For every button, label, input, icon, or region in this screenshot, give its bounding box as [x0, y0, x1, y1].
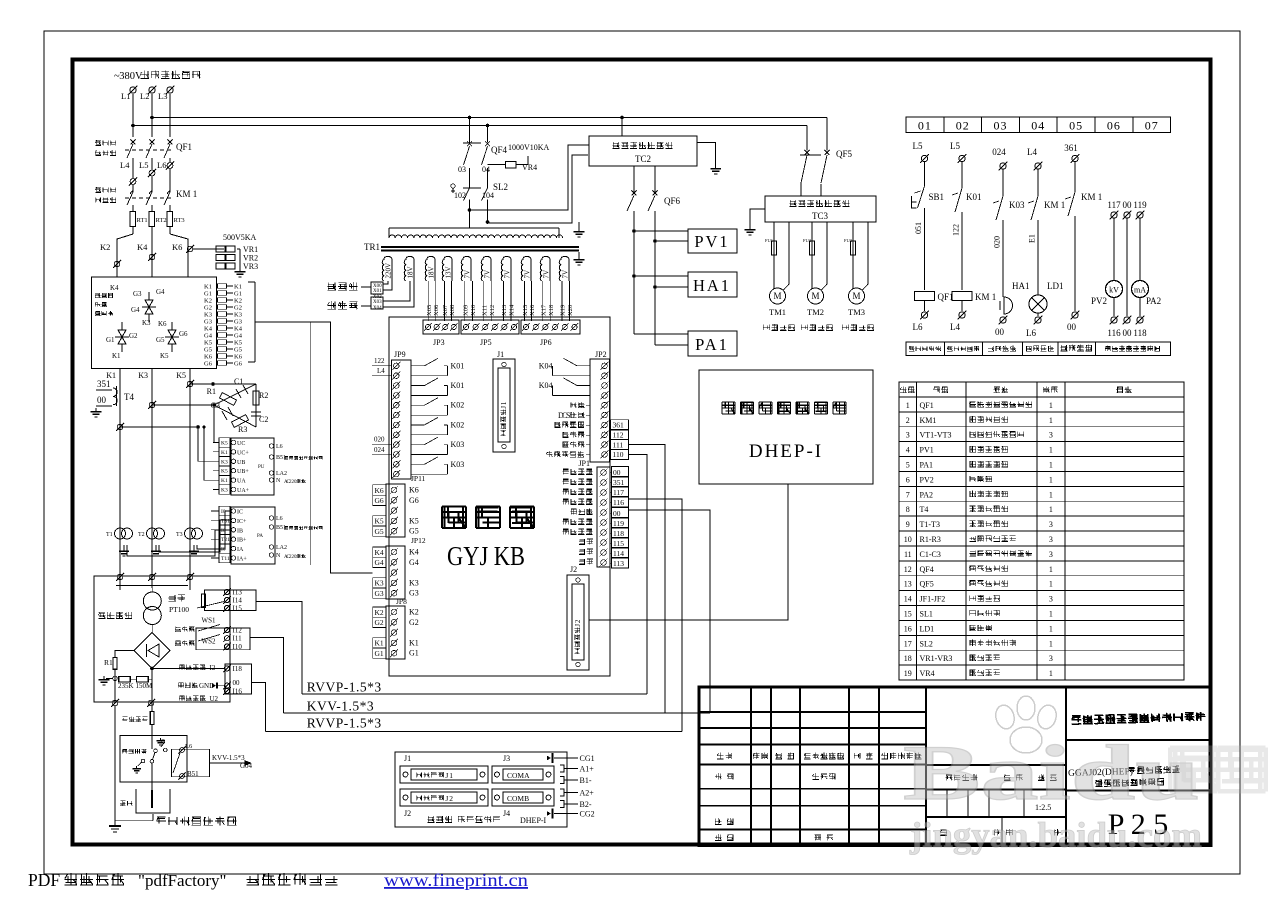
svg-text:KM 1: KM 1	[176, 189, 197, 199]
svg-text:RVVP-1.5*3: RVVP-1.5*3	[307, 680, 382, 695]
svg-text:00: 00	[1123, 328, 1133, 338]
svg-text:L6: L6	[185, 743, 193, 750]
company name	[1066, 739, 1211, 741]
svg-text:PV1: PV1	[694, 232, 729, 251]
svg-text:G1: G1	[234, 291, 242, 298]
lamp LD1	[1029, 295, 1047, 313]
svg-text:UA: UA	[237, 479, 246, 485]
svg-text:00: 00	[1123, 200, 1133, 210]
svg-text:VR1-VR3: VR1-VR3	[920, 654, 953, 663]
svg-text:116: 116	[1107, 328, 1121, 338]
svg-text:FU2: FU2	[803, 238, 811, 243]
svg-text:K5: K5	[176, 371, 186, 380]
svg-text:PV2: PV2	[1091, 296, 1107, 306]
svg-text:17: 17	[904, 639, 912, 648]
svg-text:K02: K02	[451, 401, 465, 410]
svg-text:7V: 7V	[561, 270, 569, 279]
svg-text:102: 102	[454, 191, 466, 200]
svg-text:G2: G2	[204, 305, 212, 312]
svg-text:13: 13	[904, 580, 912, 589]
svg-text:19: 19	[904, 669, 912, 678]
svg-text:111: 111	[613, 440, 624, 449]
svg-text:UA+: UA+	[237, 488, 250, 494]
svg-text:G4: G4	[409, 558, 419, 567]
svg-text:JP3: JP3	[433, 338, 445, 347]
socket COMB	[492, 789, 554, 806]
svg-text:I11: I11	[233, 635, 243, 643]
thyristor VT1	[118, 330, 126, 337]
svg-text:S: S	[566, 411, 570, 420]
svg-text:LA2: LA2	[276, 471, 287, 477]
svg-text:IA: IA	[237, 547, 244, 553]
svg-text:M: M	[773, 291, 781, 301]
label main breaker	[95, 140, 101, 145]
svg-text:LA2: LA2	[276, 545, 287, 551]
svg-text:K01: K01	[451, 381, 465, 390]
svg-text:K5: K5	[234, 340, 242, 347]
svg-text:X06: X06	[433, 304, 440, 316]
svg-text:PA1: PA1	[695, 335, 729, 354]
svg-text:K6: K6	[409, 486, 419, 495]
svg-text:IA+: IA+	[237, 557, 247, 563]
ground main	[103, 676, 105, 680]
svg-text:00: 00	[1067, 322, 1077, 332]
wire riser 111 to KVV line	[629, 445, 666, 714]
svg-text:QF4: QF4	[920, 565, 934, 574]
breaker QF1 3 poles	[131, 140, 136, 145]
svg-text:1: 1	[1049, 565, 1053, 574]
interface board box	[389, 317, 610, 676]
svg-text:G3: G3	[234, 319, 242, 326]
svg-text:PU: PU	[258, 465, 265, 470]
meter box PV1	[634, 230, 688, 232]
svg-text:HA1: HA1	[1012, 281, 1030, 291]
svg-text:DHEP-I: DHEP-I	[520, 816, 547, 825]
svg-text:K4: K4	[110, 284, 119, 292]
svg-text:N: N	[276, 553, 281, 559]
svg-text:18: 18	[904, 654, 912, 663]
svg-text:M: M	[811, 291, 819, 301]
svg-text:TM2: TM2	[807, 307, 824, 317]
wires into transformer	[119, 576, 121, 590]
svg-text:K01: K01	[451, 361, 465, 370]
wire left ends	[256, 601, 302, 694]
svg-text:020: 020	[374, 436, 385, 444]
sheet row	[940, 830, 947, 836]
wire riser 00 to KVV right end	[629, 510, 711, 713]
svg-text:05: 05	[1069, 119, 1083, 133]
svg-text:IC: IC	[237, 510, 243, 516]
svg-text:03: 03	[994, 119, 1008, 133]
svg-text:G04: G04	[240, 762, 253, 770]
svg-text:C1: C1	[234, 377, 243, 386]
svg-text:L6: L6	[1026, 328, 1036, 338]
svg-text:X16: X16	[529, 304, 536, 316]
terminal marks on phase wires	[187, 381, 193, 387]
svg-text:G5: G5	[375, 527, 384, 536]
svg-text:G5: G5	[156, 336, 165, 344]
svg-text:G5: G5	[409, 527, 419, 536]
wire QF6 down to meters	[633, 211, 635, 334]
svg-text:2: 2	[906, 416, 910, 425]
svg-text:1: 1	[1049, 446, 1053, 455]
wire phase verticals to QF1	[132, 94, 134, 137]
svg-text:X12: X12	[489, 305, 496, 316]
svg-text:G4: G4	[156, 288, 165, 296]
svg-text:1: 1	[1049, 639, 1053, 648]
svg-text:K04: K04	[539, 361, 553, 370]
capacitor C3	[228, 407, 233, 416]
svg-text:K03: K03	[451, 460, 465, 469]
contactor KM1 3 poles	[127, 192, 133, 205]
svg-text:K2: K2	[375, 608, 384, 617]
svg-text:115: 115	[613, 539, 624, 548]
svg-text:G3: G3	[375, 589, 384, 598]
svg-text:K2: K2	[100, 242, 110, 252]
svg-text:L5: L5	[913, 141, 923, 151]
svg-text:K6: K6	[172, 242, 182, 252]
svg-text:00: 00	[613, 509, 621, 518]
svg-text:00: 00	[97, 395, 107, 405]
svg-text:T1-T3: T1-T3	[920, 520, 940, 529]
svg-text:VT1-VT3: VT1-VT3	[920, 431, 952, 440]
svg-text:7V: 7V	[503, 270, 511, 279]
svg-text:118: 118	[1133, 328, 1147, 338]
svg-text:B51: B51	[187, 770, 199, 778]
svg-text:1: 1	[1049, 461, 1053, 470]
svg-text:1: 1	[449, 771, 453, 780]
svg-text:14: 14	[904, 595, 912, 604]
svg-text:B1-: B1-	[580, 776, 592, 785]
svg-text:1: 1	[1049, 580, 1053, 589]
svg-text:G1: G1	[375, 649, 384, 658]
svg-text:JP1: JP1	[578, 459, 590, 468]
svg-text:J1: J1	[497, 350, 504, 359]
svg-text:G4: G4	[375, 558, 384, 567]
svg-text:X20: X20	[567, 305, 574, 316]
svg-text:JF1-JF2: JF1-JF2	[920, 595, 946, 604]
svg-text:CG1: CG1	[580, 754, 595, 763]
terminal strip JP6	[521, 320, 580, 334]
svg-text:K1: K1	[409, 638, 419, 647]
svg-text:HA1: HA1	[693, 276, 731, 295]
label main transformer	[98, 612, 105, 618]
svg-text:G6: G6	[375, 496, 384, 505]
svg-text:T4: T4	[124, 392, 134, 402]
svg-text:SL2: SL2	[493, 182, 508, 192]
board2 right terminals	[269, 516, 273, 520]
title block grid left	[750, 687, 752, 846]
svg-text:18V: 18V	[427, 266, 435, 278]
svg-text:7V: 7V	[463, 270, 471, 279]
TR1 primary winding	[389, 227, 559, 229]
svg-text:351: 351	[97, 379, 111, 389]
svg-text:020: 020	[993, 236, 1002, 248]
svg-text:JP2: JP2	[595, 350, 607, 359]
svg-text:K3: K3	[204, 312, 212, 319]
svg-text:K3: K3	[142, 319, 151, 327]
svg-text:T1: T1	[106, 532, 113, 538]
svg-text:13V: 13V	[444, 266, 452, 278]
svg-text:R2: R2	[259, 391, 268, 400]
wire bracket to strips riser	[257, 322, 373, 573]
switch B51 box	[172, 749, 210, 776]
svg-text:X01: X01	[373, 289, 382, 294]
svg-text:3: 3	[1049, 595, 1053, 604]
wire horizontal to RC network	[120, 426, 198, 428]
svg-text:K1: K1	[234, 284, 242, 291]
breaker QF5	[806, 143, 808, 151]
svg-text:K4: K4	[375, 548, 384, 557]
controller connector box	[395, 752, 567, 827]
svg-text:FU1: FU1	[765, 238, 773, 243]
right pin labels CG1..CG2	[551, 753, 553, 763]
transformer symbol circles	[143, 592, 161, 610]
svg-text:X11: X11	[481, 305, 488, 316]
svg-text:L5: L5	[139, 160, 148, 170]
svg-text:X10: X10	[470, 305, 477, 316]
terminal box I18 00 I16	[225, 664, 252, 694]
svg-text:L6: L6	[276, 516, 283, 522]
svg-text:J: J	[445, 794, 448, 803]
wires K lines to board1	[214, 405, 219, 443]
svg-text:I10: I10	[233, 643, 243, 651]
svg-text:K4: K4	[234, 326, 243, 333]
svg-text:L5: L5	[950, 141, 960, 151]
svg-text:KM 1: KM 1	[1081, 192, 1102, 202]
svg-text:JP12: JP12	[411, 536, 426, 545]
svg-text:L6: L6	[913, 322, 923, 332]
svg-text:122: 122	[374, 357, 385, 365]
svg-text:G4: G4	[131, 306, 140, 314]
svg-text:5: 5	[906, 461, 910, 470]
svg-text:TM1: TM1	[769, 307, 786, 317]
svg-text:A1+: A1+	[580, 765, 595, 774]
wire riser 110 to RVVP line1	[629, 454, 648, 694]
svg-text:1000V10KA: 1000V10KA	[508, 143, 550, 152]
svg-text:X13: X13	[501, 305, 508, 316]
svg-text:G4: G4	[204, 333, 213, 340]
svg-text:1: 1	[500, 401, 508, 405]
interface board title	[442, 506, 466, 528]
svg-text:JP6: JP6	[540, 338, 552, 347]
svg-text:18V: 18V	[406, 266, 414, 278]
svg-text:361: 361	[613, 421, 625, 430]
svg-text:PV1: PV1	[920, 446, 934, 455]
svg-text:K3: K3	[138, 371, 148, 380]
svg-text:K1: K1	[204, 284, 212, 291]
resistor R2	[253, 391, 259, 405]
svg-text:G5: G5	[204, 347, 212, 354]
svg-text:1: 1	[1049, 669, 1053, 678]
meter PA2	[1132, 281, 1149, 298]
meter box HA1	[634, 275, 688, 277]
node L3 terminal	[167, 87, 173, 93]
svg-text:C1-C3: C1-C3	[920, 550, 941, 559]
wire bus top y117	[152, 117, 827, 119]
connector JP9 strip	[392, 360, 411, 479]
terminal strip JP3	[423, 320, 459, 334]
border inner thick frame	[73, 60, 1211, 845]
svg-text:L4: L4	[1027, 147, 1037, 157]
svg-text:UB+: UB+	[237, 469, 249, 475]
svg-text:351: 351	[613, 478, 625, 487]
svg-text:L2: L2	[140, 91, 149, 101]
svg-text:G6: G6	[204, 361, 213, 368]
svg-text:TR1: TR1	[364, 242, 380, 252]
svg-text:04: 04	[1031, 119, 1045, 133]
svg-text:RT1: RT1	[137, 217, 148, 224]
svg-text:K6: K6	[234, 354, 243, 361]
svg-text:DHEP-I: DHEP-I	[749, 441, 823, 462]
svg-text:PA2: PA2	[1146, 296, 1161, 306]
title row labels	[717, 753, 724, 759]
svg-text:M: M	[852, 291, 860, 301]
svg-text:7: 7	[906, 490, 910, 499]
svg-text:K5: K5	[221, 441, 228, 447]
svg-text:K5: K5	[204, 340, 212, 347]
svg-text:10: 10	[904, 535, 912, 544]
svg-text:K02: K02	[451, 420, 465, 429]
wire SL2 to TC2 left	[470, 145, 590, 210]
svg-text:X15: X15	[522, 305, 529, 316]
thermal relay RT1 RT2 RT3	[130, 212, 136, 227]
JP2 left text lines	[570, 402, 576, 408]
svg-text:R1: R1	[207, 387, 216, 396]
svg-text:K6: K6	[375, 486, 384, 495]
svg-text:L6: L6	[276, 444, 283, 450]
svg-text:K1: K1	[375, 639, 384, 648]
svg-text:KM 1: KM 1	[975, 292, 996, 302]
control transformer TC3 box	[765, 196, 876, 222]
svg-text:K1: K1	[221, 478, 228, 484]
sampling board PV upper	[231, 438, 274, 495]
svg-text:J1: J1	[404, 754, 411, 763]
svg-text:SL2: SL2	[920, 639, 933, 648]
meter box PA1	[634, 333, 688, 335]
TR1 core lines	[381, 246, 579, 248]
svg-text:RT3: RT3	[174, 217, 185, 224]
caption site equipment diagram	[156, 817, 166, 823]
svg-text:C3: C3	[211, 401, 220, 410]
sampling ground label	[178, 682, 184, 687]
svg-text:L4: L4	[950, 322, 960, 332]
terminals on phase wires	[149, 254, 155, 260]
svg-text:COMB: COMB	[507, 794, 529, 803]
svg-text:3: 3	[1049, 550, 1053, 559]
X00-X04 terminal blocks	[371, 282, 383, 294]
connector JP1 strip	[597, 467, 610, 567]
JP1 right number cells	[612, 467, 629, 478]
TR1 secondary coils	[382, 257, 392, 282]
motor branches TM1 TM2 TM3	[773, 222, 775, 289]
svg-text:119: 119	[613, 519, 624, 528]
svg-text:Baidu: Baidu	[903, 729, 1200, 816]
svg-text:WS2: WS2	[202, 638, 217, 646]
JP2 right number cells	[611, 420, 629, 430]
wires to KM1	[132, 158, 134, 178]
svg-text:X04: X04	[373, 306, 382, 311]
svg-text:KVV-1.5*3: KVV-1.5*3	[212, 754, 245, 762]
svg-text:L1: L1	[121, 91, 130, 101]
svg-text:GYJ KB: GYJ KB	[447, 541, 525, 571]
ground varistor	[239, 268, 241, 272]
svg-text:I2: I2	[210, 664, 216, 672]
svg-text:G6: G6	[234, 361, 243, 368]
shield ground top	[578, 228, 580, 232]
svg-text:JP9: JP9	[394, 350, 406, 359]
svg-text:L6: L6	[157, 160, 166, 170]
svg-text:J: J	[445, 771, 448, 780]
svg-text:K3: K3	[375, 579, 384, 588]
column header table 01-07	[906, 117, 1171, 132]
snubber delta R1 C1 R2 C2 C3 R3	[214, 384, 256, 405]
svg-text:J2: J2	[404, 809, 411, 818]
svg-text:mA: mA	[1134, 286, 1146, 295]
svg-text:024: 024	[374, 446, 385, 454]
parts schedule table	[899, 382, 1184, 680]
wire riser 116 to RVVP line3	[629, 499, 683, 732]
svg-text:116: 116	[613, 498, 624, 507]
svg-text:UC+: UC+	[237, 450, 249, 456]
svg-text:A2+: A2+	[580, 789, 595, 798]
node L2 terminal	[149, 87, 155, 93]
svg-text:L3: L3	[158, 91, 167, 101]
svg-text:4: 4	[906, 446, 910, 455]
svg-text:K6: K6	[204, 354, 213, 361]
wires 220V 18V coils to X terminals	[383, 281, 388, 284]
svg-text:K1: K1	[221, 450, 228, 456]
svg-text:K5: K5	[409, 516, 419, 525]
connector JP2 strip	[590, 359, 609, 462]
svg-text:2: 2	[449, 794, 453, 803]
svg-text:K5: K5	[375, 517, 384, 526]
terminals L4 L5 L6	[167, 163, 173, 169]
wire bus to TC2 top	[620, 116, 624, 120]
sampling board IA lower	[231, 507, 275, 564]
svg-text:01: 01	[918, 119, 932, 133]
middle stage box	[926, 765, 1066, 790]
gas relay WS1 WS2	[175, 627, 181, 632]
svg-text:2: 2	[574, 619, 582, 623]
svg-text:3: 3	[906, 431, 910, 440]
svg-text:T4: T4	[920, 505, 929, 514]
svg-text:QF1: QF1	[938, 292, 954, 302]
svg-text:TM3: TM3	[848, 307, 865, 317]
svg-text:G4: G4	[234, 333, 243, 340]
svg-text:150M: 150M	[136, 682, 154, 690]
svg-text:02: 02	[956, 119, 970, 133]
svg-text:114: 114	[613, 549, 624, 558]
svg-text:L4: L4	[377, 367, 385, 375]
svg-text:K6: K6	[158, 320, 167, 328]
key symbol	[451, 184, 455, 188]
svg-text:G2: G2	[409, 618, 419, 627]
svg-text:IB+: IB+	[237, 538, 247, 544]
svg-text:119: 119	[1133, 200, 1147, 210]
parts table header	[900, 387, 907, 393]
relay contacts K01 K02 K03	[411, 365, 425, 367]
svg-text:3: 3	[1049, 654, 1053, 663]
svg-text:X14: X14	[509, 304, 516, 316]
svg-text:VR3: VR3	[243, 262, 258, 271]
TC3 left ground	[750, 209, 765, 226]
svg-text:K01: K01	[966, 192, 982, 202]
svg-text:3: 3	[1049, 431, 1053, 440]
svg-text:X09: X09	[462, 305, 469, 316]
svg-text:TC2: TC2	[635, 154, 651, 164]
svg-text:T2: T2	[138, 532, 145, 538]
